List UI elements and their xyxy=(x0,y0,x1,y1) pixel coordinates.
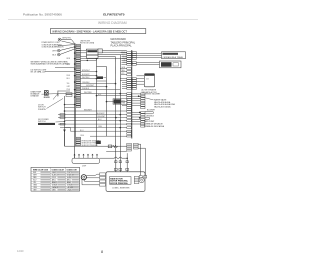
svg-text:INT. DE TAPA, LUZ: INT. DE TAPA, LUZ xyxy=(31,71,46,74)
svg-text:CODIGO COR: CODIGO COR xyxy=(67,169,78,171)
connector J2 pins left group2 xyxy=(127,68,132,76)
svg-text:YEL: YEL xyxy=(67,83,70,85)
svg-text:ORG/WHT: ORG/WHT xyxy=(97,116,105,118)
node xyxy=(96,58,98,60)
horizontal wire y146 xyxy=(65,145,127,147)
connector J5 pins bottom xyxy=(127,133,132,151)
svg-text:WIRING DIAGRAM - 5995749906: WIRING DIAGRAM - 5995749906 - LAVADORA S… xyxy=(52,29,127,33)
node xyxy=(139,117,141,119)
header rule xyxy=(8,18,198,20)
svg-text:RES: RES xyxy=(122,102,125,104)
svg-text:PLACA PRINCIPAL: PLACA PRINCIPAL xyxy=(111,45,133,48)
svg-text:Publication No. 5995749906: Publication No. 5995749906 xyxy=(23,13,62,17)
node xyxy=(96,71,98,73)
thermistor squiggle xyxy=(112,145,117,148)
small dark chip xyxy=(96,141,101,144)
pressure sensor text xyxy=(82,140,101,146)
node xyxy=(139,112,141,114)
svg-text:RED/WHT: RED/WHT xyxy=(84,110,92,112)
wire y151 xyxy=(106,150,127,152)
svg-text:CORDON DE SUMINISTRO: CORDON DE SUMINISTRO xyxy=(42,44,63,46)
riser to spine pins xyxy=(126,153,128,172)
wires J1 left xyxy=(121,53,127,65)
switch arrow symbol xyxy=(63,130,65,133)
svg-text:CERRADURA E TRAVA: CERRADURA E TRAVA xyxy=(163,56,184,59)
left stub bus xyxy=(57,91,59,97)
NTC text box xyxy=(113,99,127,105)
svg-text:WIRE COLOR CODE: WIRE COLOR CODE xyxy=(33,169,48,171)
checkered logo block xyxy=(44,90,49,95)
svg-text:ORG: ORG xyxy=(98,126,103,128)
svg-text:PUERTA: PUERTA xyxy=(38,108,46,111)
door switch text xyxy=(38,104,46,111)
UI board box xyxy=(142,74,158,94)
leader diag xyxy=(53,94,58,100)
svg-text:RED: RED xyxy=(67,75,71,77)
wires from ladder right xyxy=(81,60,121,89)
wire row labels xyxy=(97,113,105,118)
svg-text:VERDE: VERDE xyxy=(52,184,58,186)
svg-text:PNK/BLK: PNK/BLK xyxy=(82,88,90,90)
wire xyxy=(102,51,126,53)
svg-text:ORG/BLK: ORG/BLK xyxy=(146,116,155,118)
door lock box xyxy=(162,52,186,59)
bus label chip xyxy=(97,76,103,79)
wire lid xyxy=(45,71,75,73)
svg-text:NEGRO: NEGRO xyxy=(52,172,59,174)
wires to door lock xyxy=(136,54,161,65)
node xyxy=(87,60,89,62)
connector J1 pins right xyxy=(132,52,136,66)
svg-text:DESAGUE: DESAGUE xyxy=(31,95,40,98)
svg-text:CONEC. INVERTER: CONEC. INVERTER xyxy=(112,188,130,190)
wires group2 xyxy=(120,69,127,75)
svg-text:ROJO: ROJO xyxy=(52,177,57,179)
right mid labels xyxy=(144,94,176,128)
pin labels xyxy=(122,52,128,64)
svg-text:BLK/WHT: BLK/WHT xyxy=(152,94,161,96)
ground ring terminal xyxy=(58,38,72,42)
svg-text:ORG/BLK: ORG/BLK xyxy=(82,82,90,84)
bus B2 xyxy=(106,67,108,137)
motor control box xyxy=(106,172,145,192)
svg-text:CODIGO COLOR: CODIGO COLOR xyxy=(52,169,65,171)
connector J3 pins right xyxy=(132,78,136,90)
svg-text:BOMBA DE DESCARGA: BOMBA DE DESCARGA xyxy=(144,125,165,128)
svg-text:YEL: YEL xyxy=(123,62,126,64)
svg-text:WHT/BLK: WHT/BLK xyxy=(82,77,90,79)
motor connector pins xyxy=(100,173,106,186)
main board label xyxy=(111,38,136,47)
wire stub xyxy=(58,90,70,92)
nodes on L1 xyxy=(64,110,66,112)
leader xyxy=(139,96,154,100)
wire step xyxy=(60,128,90,132)
terminal ladder strip xyxy=(74,44,81,159)
svg-text:GRN/YEL: GRN/YEL xyxy=(62,38,72,40)
long wires left from J4 xyxy=(58,94,127,132)
svg-text:BLK: BLK xyxy=(98,94,102,96)
wire from L1 xyxy=(65,110,127,112)
wire labels xyxy=(82,70,103,128)
connector ticks mid xyxy=(115,161,129,163)
bus B2 feed xyxy=(97,66,107,68)
svg-text:MOTOR PRINCIPAL: MOTOR PRINCIPAL xyxy=(110,182,128,185)
drain label xyxy=(31,90,42,97)
wires group3 right to UI xyxy=(136,76,144,84)
motor M1 xyxy=(81,175,86,180)
wire L1 top xyxy=(57,94,59,96)
svg-text:GRN: GRN xyxy=(121,67,126,69)
svg-text:BLU/WHT: BLU/WHT xyxy=(147,110,156,112)
svg-text:FILTRO DE LINEA: FILTRO DE LINEA xyxy=(80,42,95,45)
svg-text:BLK/WHT: BLK/WHT xyxy=(97,113,105,115)
svg-text:RED: RED xyxy=(33,177,37,179)
line filter FL1 xyxy=(81,49,99,58)
svg-text:SEE SAFETY WIRING, ACCESS IN L: SEE SAFETY WIRING, ACCESS IN LOWER PANEL xyxy=(31,61,69,64)
main board spine xyxy=(131,50,133,139)
harness connector CN2 xyxy=(141,93,145,109)
wire top left xyxy=(55,67,75,69)
wire ground to bus xyxy=(61,40,75,44)
legend table xyxy=(31,167,80,191)
svg-text:WHT: WHT xyxy=(33,174,37,176)
wire xyxy=(81,58,127,60)
svg-text:BLK: BLK xyxy=(52,55,57,57)
svg-text:BLK: BLK xyxy=(33,172,37,174)
svg-text:VERM: VERM xyxy=(67,177,72,179)
left small labels xyxy=(67,58,72,91)
svg-text:BLU: BLU xyxy=(67,78,71,80)
loop wire U2 xyxy=(145,117,150,119)
svg-text:12/20: 12/20 xyxy=(17,249,24,253)
svg-text:NTC: NTC xyxy=(122,100,126,102)
svg-text:ORG: ORG xyxy=(33,187,37,189)
svg-text:8: 8 xyxy=(101,250,103,254)
svg-text:BLU: BLU xyxy=(33,179,37,181)
dispenser coil assembly xyxy=(72,154,100,168)
no power text xyxy=(38,119,49,123)
junction dots on buses xyxy=(96,93,121,129)
node xyxy=(138,95,140,97)
filter output wires xyxy=(102,49,126,51)
leader drain xyxy=(42,93,58,96)
pin boxes on left wires xyxy=(60,93,72,125)
svg-text:YEL: YEL xyxy=(33,182,36,184)
svg-text:VERDE: VERDE xyxy=(67,184,73,186)
svg-text:VIO: VIO xyxy=(121,73,125,75)
wire WHT to ladder xyxy=(60,47,75,51)
power cord text xyxy=(42,42,65,48)
node xyxy=(126,157,128,159)
svg-text:GRIS: GRIS xyxy=(52,189,56,191)
wires into ladder left xyxy=(65,105,75,108)
coil output wire with hops xyxy=(100,157,128,158)
svg-text:WHT: WHT xyxy=(52,51,57,53)
loop bottom pins xyxy=(139,176,147,179)
box top entry ticks xyxy=(116,168,127,172)
svg-text:GRY: GRY xyxy=(67,86,72,88)
svg-text:PRETO: PRETO xyxy=(67,172,73,174)
leader to filter xyxy=(58,45,75,46)
bus B4 xyxy=(119,56,121,172)
right bottom connector xyxy=(134,143,139,149)
leader xyxy=(56,121,65,124)
inline fuse xyxy=(108,145,112,148)
svg-text:GRN: GRN xyxy=(33,184,37,186)
bus B3 xyxy=(115,58,117,172)
svg-text:TAN: TAN xyxy=(121,69,125,72)
motor wires xyxy=(82,174,100,185)
warning text xyxy=(31,61,70,66)
wire labels xyxy=(82,74,94,90)
connector J1 pins left group1 xyxy=(127,52,132,66)
wires group3 left xyxy=(120,79,127,89)
svg-text:ORG: ORG xyxy=(80,135,85,137)
title block box xyxy=(50,29,145,34)
svg-text:SWITCH: SWITCH xyxy=(38,121,46,123)
svg-text:BLK/WHT: BLK/WHT xyxy=(82,74,90,76)
wires y131 y136 xyxy=(90,135,127,137)
bus B1 xyxy=(96,59,98,147)
svg-text:DOOR: DOOR xyxy=(44,97,50,99)
svg-text:WHT/RED: WHT/RED xyxy=(84,92,93,94)
node xyxy=(64,104,66,106)
line filter label xyxy=(80,40,95,44)
left bus L1 xyxy=(64,96,66,146)
display box xyxy=(160,61,182,68)
ring terminal BLK xyxy=(52,53,60,56)
svg-text:DISP: DISP xyxy=(82,165,87,167)
svg-text:ELFW7537AT0: ELFW7537AT0 xyxy=(103,13,125,17)
wire cross xyxy=(97,80,107,82)
wires right side mid xyxy=(132,94,152,124)
connector J4 long pin column xyxy=(127,93,132,132)
hatch connector xyxy=(134,176,139,183)
svg-text:BRN: BRN xyxy=(67,58,71,60)
svg-text:POWER SUPPLY CORD: POWER SUPPLY CORD xyxy=(42,42,61,44)
connector J3 pins left group3 xyxy=(127,78,132,90)
svg-text:BLU: BLU xyxy=(98,119,102,121)
svg-text:U I: U I xyxy=(146,78,149,80)
harness connector CN3 xyxy=(141,112,145,128)
loop wires right xyxy=(138,144,141,175)
ring terminal WHT xyxy=(52,49,60,52)
svg-text:VALVULA DO AGUA: VALVULA DO AGUA xyxy=(154,105,171,108)
svg-text:GRY/WHT: GRY/WHT xyxy=(86,85,94,87)
lid switch text xyxy=(31,69,48,73)
wire BLK to ladder xyxy=(60,49,75,54)
svg-text:WIRING DIAGRAM: WIRING DIAGRAM xyxy=(98,21,127,25)
wire stub under ntc xyxy=(122,105,127,107)
junction dots xyxy=(96,75,117,88)
filter output connector xyxy=(98,49,102,53)
leader door xyxy=(47,99,64,109)
loop wire U1 xyxy=(145,111,154,113)
